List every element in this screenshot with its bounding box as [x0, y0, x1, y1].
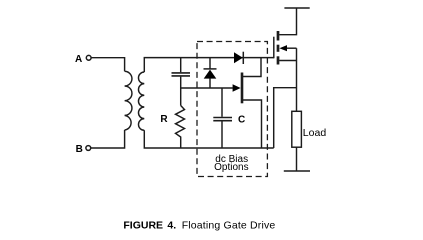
source node vertical wire to load — [296, 48, 298, 111]
Q1 source lead — [279, 60, 296, 62]
Q1 drain stub — [277, 31, 280, 41]
svg-text:A: A — [75, 54, 82, 65]
Q1 drain lead to top supply — [279, 8, 296, 35]
Q1 body stub — [277, 45, 280, 52]
wire capacitor to node — [180, 77, 182, 106]
transistor Q2 drain lead — [243, 58, 261, 77]
transistor Q2 channel bar — [241, 73, 244, 104]
svg-text:FIGURE: FIGURE — [123, 220, 163, 232]
Q1 body arrow — [279, 45, 287, 51]
wire top rail down to coupling capacitor — [180, 58, 182, 73]
wire B to transformer primary bottom — [91, 130, 125, 148]
Q1 gate line — [273, 37, 275, 59]
diode D1 (clamp, anode at node, cathode to top rail) — [209, 58, 211, 69]
wire secondary top to Q1 gate (top rail of drive) — [144, 58, 273, 72]
top supply rail bar — [284, 7, 309, 9]
transformer T1 primary winding — [125, 71, 132, 130]
Q1 body wire — [287, 47, 297, 49]
capacitor C — [213, 118, 232, 121]
capacitor C wire top — [221, 88, 223, 117]
terminal A — [86, 55, 91, 60]
load resistor box — [292, 111, 302, 147]
svg-text:B: B — [76, 144, 83, 155]
svg-text:R: R — [160, 114, 168, 125]
resistor R — [176, 106, 185, 149]
svg-text:Options: Options — [214, 162, 248, 173]
svg-text:Floating Gate Drive: Floating Gate Drive — [182, 220, 276, 232]
wire gate-node horizontal (R/C node to Q2 gate) — [181, 87, 233, 89]
terminal B — [86, 146, 91, 151]
svg-text:4.: 4. — [167, 220, 176, 232]
svg-text:C: C — [238, 114, 245, 125]
bottom supply rail bar — [284, 170, 310, 172]
wire A to transformer primary top — [91, 58, 124, 72]
wire secondary bottom / floating common rail — [144, 130, 273, 148]
Q1 source stub — [277, 56, 280, 64]
svg-text:Load: Load — [303, 127, 327, 139]
transformer T1 secondary winding — [138, 72, 144, 130]
tie wire source to floating common — [274, 88, 297, 148]
dashed box dc Bias Options — [197, 42, 267, 177]
capacitor (coupling, unlabeled) — [172, 73, 191, 76]
capacitor C wire bottom — [221, 121, 223, 148]
transistor Q2 source lead — [243, 100, 262, 148]
diode D2 (series, on top rail) — [234, 52, 243, 63]
wire load bottom — [296, 147, 298, 171]
transistor Q2 gate arrow — [233, 84, 241, 91]
